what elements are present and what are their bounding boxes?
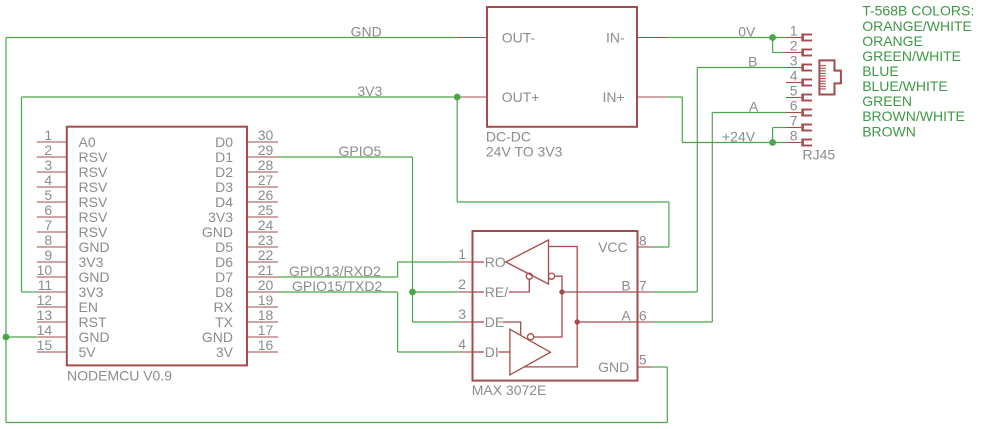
- U3 internal junction on A: [575, 319, 580, 324]
- U1 pin 15 (5V): [37, 337, 97, 360]
- svg-text:8: 8: [44, 232, 52, 248]
- svg-text:11: 11: [38, 277, 53, 293]
- U1 pin 21 (D7): [215, 262, 278, 285]
- wire 0V from U2 IN- to J1 pin 1: [667, 37, 786, 39]
- U3 pin 4 internal lead: [473, 351, 485, 353]
- svg-text:ORANGE/WHITE: ORANGE/WHITE: [862, 18, 972, 34]
- wire +24V from U2 IN+: [667, 96, 682, 98]
- svg-text:28: 28: [258, 157, 274, 173]
- wire GPIO5 vertical: [412, 157, 414, 322]
- wire GND riser to U3 pin 5: [666, 367, 668, 423]
- U3 pin 1 internal lead: [473, 261, 485, 263]
- svg-text:8: 8: [790, 128, 798, 144]
- U1 pin 22 (D6): [215, 247, 278, 270]
- wire GPIO15/TXD2 drop: [397, 292, 399, 352]
- svg-text:GREEN/WHITE: GREEN/WHITE: [862, 48, 961, 64]
- svg-text:TX: TX: [215, 314, 234, 330]
- wire GND to U1 pin 14: [6, 336, 37, 338]
- U3 pin 2 (RE/): [458, 276, 508, 300]
- J1 RJ45 pin 7 contact: [786, 113, 812, 132]
- svg-text:1: 1: [458, 246, 466, 262]
- svg-text:6: 6: [790, 98, 798, 114]
- wire 3V3 stub to U3 pin 8: [653, 246, 669, 248]
- svg-text:14: 14: [37, 322, 53, 338]
- U1 pin 13 (RST): [37, 307, 107, 330]
- svg-text:0V: 0V: [738, 24, 756, 40]
- svg-text:DC-DC: DC-DC: [486, 129, 531, 145]
- U1 pin 10 (GND): [37, 262, 110, 285]
- svg-text:GND: GND: [202, 224, 233, 240]
- svg-text:3: 3: [44, 157, 52, 173]
- wire GPIO13/RXD2 to U3 pin 1 RO: [398, 261, 459, 263]
- U1 pin 23 (D5): [215, 232, 278, 255]
- svg-text:VCC: VCC: [598, 239, 628, 255]
- U1 pin 20 (D8): [215, 277, 278, 300]
- wire GND left vertical: [5, 38, 7, 423]
- svg-text:GND: GND: [598, 359, 629, 375]
- svg-text:2: 2: [458, 276, 466, 292]
- wire GPIO5 to U3 pin 3 DE: [413, 321, 459, 323]
- svg-text:17: 17: [258, 322, 274, 338]
- node GPIO5 junction at RE/: [409, 289, 416, 296]
- svg-text:5: 5: [790, 83, 798, 99]
- svg-text:26: 26: [258, 187, 274, 203]
- svg-text:24: 24: [258, 217, 274, 233]
- svg-text:IN+: IN+: [603, 89, 625, 105]
- module U1 NODEMCU V0.9 body: [67, 127, 247, 366]
- svg-text:B: B: [748, 54, 757, 70]
- U3 receiver input tap to A: [549, 247, 578, 323]
- wire B to J1 pin 3: [697, 67, 786, 69]
- svg-text:24V TO 3V3: 24V TO 3V3: [486, 143, 563, 159]
- svg-text:GND: GND: [79, 269, 110, 285]
- svg-text:A: A: [749, 99, 759, 115]
- U1 pin 16 (3V): [216, 337, 278, 360]
- U1 pin 12 (EN): [37, 292, 98, 315]
- svg-text:OUT+: OUT+: [502, 89, 540, 105]
- svg-text:+24V: +24V: [722, 129, 756, 145]
- svg-text:23: 23: [258, 232, 274, 248]
- svg-text:GPIO5: GPIO5: [339, 143, 382, 159]
- U3 pin 3 internal lead: [473, 321, 485, 323]
- U1 pin 30 (D0): [215, 127, 278, 150]
- U3 internal junction on B: [559, 289, 564, 294]
- wire GPIO15/TXD2 horizontal from U1 pin 20: [278, 291, 398, 293]
- wire 3V3 horizontal: [22, 96, 458, 98]
- svg-text:B: B: [621, 277, 630, 293]
- U3 pin 8 (VCC): [598, 233, 652, 255]
- wire B from U3 pin 7: [653, 291, 698, 293]
- svg-text:GND: GND: [79, 329, 110, 345]
- wire A to J1 pin 6: [712, 112, 786, 114]
- svg-text:GPIO13/RXD2: GPIO13/RXD2: [289, 263, 381, 279]
- svg-text:T-568B COLORS:: T-568B COLORS:: [862, 3, 974, 19]
- IC U3 MAX3072E body: [473, 231, 638, 381]
- svg-text:15: 15: [37, 337, 53, 353]
- svg-text:3V3: 3V3: [357, 83, 382, 99]
- U1 pin 24 (GND): [202, 217, 278, 240]
- svg-text:BLUE: BLUE: [862, 63, 899, 79]
- U3 driver inverting output bubble: [528, 334, 534, 340]
- svg-text:RSV: RSV: [79, 164, 108, 180]
- wire 3V3 drop to U3 VCC: [668, 202, 670, 247]
- svg-text:D0: D0: [215, 134, 233, 150]
- svg-text:D4: D4: [215, 194, 233, 210]
- node GND junction at U1 pin 14: [3, 334, 10, 341]
- wire +24V horizontal to J1 pin 8: [682, 142, 786, 144]
- svg-text:12: 12: [37, 292, 53, 308]
- wire 0V drop to pin 2 row: [772, 38, 774, 53]
- node 3V3 junction at OUT+: [454, 94, 461, 101]
- svg-text:GND: GND: [202, 329, 233, 345]
- U3 driver buffer triangle: [510, 329, 551, 375]
- svg-text:21: 21: [258, 262, 274, 278]
- svg-text:5: 5: [44, 187, 52, 203]
- svg-text:RSV: RSV: [79, 194, 108, 210]
- svg-text:BLUE/WHITE: BLUE/WHITE: [862, 78, 948, 94]
- svg-text:D6: D6: [215, 254, 233, 270]
- wire 3V3 horizontal run to VCC: [457, 201, 669, 203]
- svg-text:6: 6: [44, 202, 52, 218]
- svg-text:5: 5: [639, 352, 647, 368]
- svg-text:20: 20: [258, 277, 274, 293]
- U1 pin 7 (RSV): [37, 217, 108, 240]
- svg-text:4: 4: [44, 172, 52, 188]
- svg-text:GND: GND: [79, 239, 110, 255]
- U3 receiver inverting input bubble: [548, 273, 554, 279]
- wire +24V drop: [681, 97, 683, 143]
- wire GPIO15/TXD2 to U3 pin 4 DI: [398, 351, 459, 353]
- wire GPIO5 to U3 pin 2 RE/: [413, 291, 459, 293]
- svg-text:RSV: RSV: [79, 224, 108, 240]
- svg-text:OUT-: OUT-: [502, 29, 536, 45]
- svg-text:3V3: 3V3: [208, 209, 233, 225]
- U1 pin 3 (RSV): [37, 157, 108, 180]
- svg-text:A0: A0: [79, 134, 96, 150]
- U3 pin 1 (RO): [458, 246, 506, 270]
- svg-text:RE/: RE/: [485, 284, 508, 300]
- wire 3V3 left vertical: [21, 97, 23, 292]
- wire GPIO13/RXD2 riser: [397, 262, 399, 277]
- U3 pin 3 (DE): [458, 306, 504, 330]
- U1 pin 9 (3V3): [37, 247, 104, 270]
- svg-text:4: 4: [458, 336, 466, 352]
- svg-text:8: 8: [639, 233, 647, 249]
- svg-text:RSV: RSV: [79, 149, 108, 165]
- J1 RJ45 pin 6 contact: [786, 98, 812, 117]
- svg-text:5V: 5V: [79, 344, 97, 360]
- svg-text:3V: 3V: [216, 344, 234, 360]
- svg-text:IN-: IN-: [606, 29, 625, 45]
- svg-text:6: 6: [639, 308, 647, 324]
- wire 3V3 to U1 pin 11: [22, 291, 37, 293]
- node +24V junction: [769, 139, 776, 146]
- U1 pin 17 (GND): [202, 322, 278, 345]
- wire GND stub to U3 pin 5: [653, 366, 668, 368]
- U3 DE enable path: [503, 322, 521, 336]
- svg-text:1: 1: [790, 23, 798, 39]
- svg-text:GND: GND: [351, 24, 382, 40]
- svg-text:RST: RST: [79, 314, 107, 330]
- wire +24V riser to pin 7 row: [772, 128, 774, 143]
- svg-text:3: 3: [790, 53, 798, 69]
- svg-text:EN: EN: [79, 299, 98, 315]
- svg-text:D7: D7: [215, 269, 233, 285]
- svg-text:ORANGE: ORANGE: [862, 33, 923, 49]
- wire 0V to J1 pin 2: [773, 52, 786, 54]
- svg-text:GPIO15/TXD2: GPIO15/TXD2: [292, 278, 382, 294]
- U3 internal B net line: [562, 291, 638, 293]
- U2 pin OUT+: [457, 89, 539, 105]
- svg-text:13: 13: [37, 307, 53, 323]
- svg-text:GREEN: GREEN: [862, 93, 912, 109]
- svg-text:D3: D3: [215, 179, 233, 195]
- note T-568B wiring colors: [862, 3, 974, 140]
- svg-text:30: 30: [258, 127, 274, 143]
- J1 RJ45 pin 8 contact: [786, 128, 812, 147]
- svg-text:2: 2: [790, 38, 798, 54]
- svg-text:4: 4: [790, 68, 798, 84]
- J1 RJ45 pin 2 contact: [786, 38, 812, 57]
- svg-text:3V3: 3V3: [79, 254, 104, 270]
- svg-text:22: 22: [258, 247, 274, 263]
- U1 pin 1 (A0): [37, 127, 96, 150]
- U3 pin 2 internal lead: [473, 291, 485, 293]
- U3 pin 6 (A): [621, 307, 652, 323]
- U1 pin 11 (3V3): [37, 277, 104, 300]
- U2 pin OUT-: [457, 29, 536, 45]
- U3 RE/ enable path with bubble: [509, 279, 529, 292]
- U3 driver output tap to A: [525, 322, 578, 367]
- svg-text:3V3: 3V3: [79, 284, 104, 300]
- svg-text:19: 19: [258, 292, 274, 308]
- svg-text:10: 10: [37, 262, 53, 278]
- J1 RJ45 pin 4 contact: [786, 68, 812, 87]
- U1 pin 27 (D3): [215, 172, 278, 195]
- wire GPIO5 horizontal from U1 pin 29: [278, 156, 413, 158]
- svg-text:9: 9: [44, 247, 52, 263]
- U1 pin 28 (D2): [215, 157, 278, 180]
- svg-text:DE: DE: [485, 314, 504, 330]
- wire A from U3 pin 6: [653, 321, 713, 323]
- svg-text:RSV: RSV: [79, 209, 108, 225]
- U1 pin 29 (D1): [215, 142, 278, 165]
- svg-text:1: 1: [44, 127, 52, 143]
- U1 pin 5 (RSV): [37, 187, 108, 210]
- svg-text:27: 27: [258, 172, 274, 188]
- U3 pin 5 (GND): [598, 352, 652, 375]
- U1 pin 26 (D4): [215, 187, 278, 210]
- U3 receiver buffer triangle: [506, 240, 549, 284]
- svg-text:MAX 3072E: MAX 3072E: [472, 382, 547, 398]
- U3 DI lead to driver base: [499, 351, 510, 353]
- svg-text:RSV: RSV: [79, 179, 108, 195]
- J1 RJ45 pin 3 contact: [786, 53, 812, 72]
- U1 pin 18 (TX): [215, 307, 278, 330]
- wire GND bottom horizontal: [6, 422, 667, 424]
- wire GPIO13/RXD2 horizontal from U1 pin 21: [278, 276, 398, 278]
- svg-text:7: 7: [790, 113, 798, 129]
- svg-text:25: 25: [258, 202, 274, 218]
- svg-text:NODEMCU V0.9: NODEMCU V0.9: [67, 367, 172, 383]
- wire B vertical: [696, 68, 698, 293]
- U2 pin IN+: [603, 89, 667, 105]
- svg-text:BROWN: BROWN: [862, 123, 916, 139]
- svg-text:DI: DI: [485, 344, 499, 360]
- U3 pin 4 (DI): [458, 336, 499, 360]
- wire A vertical: [711, 113, 713, 323]
- svg-text:RO: RO: [485, 254, 506, 270]
- svg-text:29: 29: [258, 142, 274, 158]
- U3 internal A net line: [577, 321, 637, 323]
- svg-text:D8: D8: [215, 284, 233, 300]
- svg-text:BROWN/WHITE: BROWN/WHITE: [862, 108, 965, 124]
- svg-text:D5: D5: [215, 239, 233, 255]
- wire 3V3 drop from junction: [456, 97, 458, 202]
- svg-text:7: 7: [44, 217, 52, 233]
- J1 RJ45 jack contact teeth: [820, 66, 825, 89]
- U1 pin 8 (GND): [37, 232, 110, 255]
- svg-text:16: 16: [258, 337, 274, 353]
- svg-text:2: 2: [44, 142, 52, 158]
- module U2 DC-DC converter body: [487, 7, 637, 127]
- U3 driver inverting output tap to B: [534, 292, 562, 337]
- svg-text:RX: RX: [214, 299, 234, 315]
- U1 pin 19 (RX): [214, 292, 278, 315]
- J1 RJ45 pin 1 contact: [786, 23, 812, 42]
- J1 RJ45 jack outline: [819, 60, 841, 94]
- U1 pin 25 (3V3): [208, 202, 278, 225]
- svg-text:18: 18: [258, 307, 274, 323]
- U1 pin 4 (RSV): [37, 172, 108, 195]
- svg-text:D2: D2: [215, 164, 233, 180]
- wire +24V to J1 pin 7: [773, 127, 786, 129]
- svg-text:3: 3: [458, 306, 466, 322]
- svg-text:A: A: [621, 307, 631, 323]
- U1 pin 6 (RSV): [37, 202, 108, 225]
- U1 pin 2 (RSV): [37, 142, 108, 165]
- J1 RJ45 pin 5 contact: [786, 83, 812, 102]
- wire GND top horizontal: [6, 37, 457, 39]
- svg-text:D1: D1: [215, 149, 233, 165]
- svg-text:7: 7: [639, 278, 647, 294]
- svg-text:RJ45: RJ45: [803, 147, 836, 163]
- node 0V junction: [769, 34, 776, 41]
- U3 pin 7 (B): [621, 277, 652, 293]
- U1 pin 14 (GND): [37, 322, 110, 345]
- U2 pin IN-: [606, 29, 667, 45]
- U3 receiver inverting input tap to B: [555, 276, 562, 292]
